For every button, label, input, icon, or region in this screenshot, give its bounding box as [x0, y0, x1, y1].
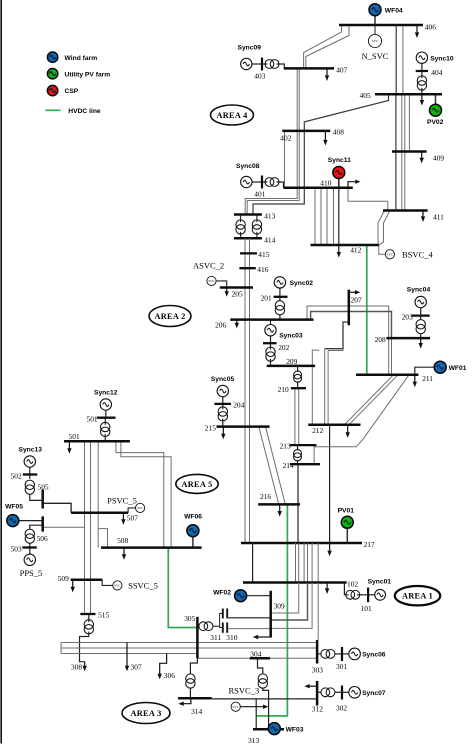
- svg-text:305: 305: [184, 614, 195, 623]
- bus 203: [411, 314, 429, 316]
- wire Sync08 gen lead: [252, 181, 262, 183]
- wire bus501 drop b: [90, 441, 92, 614]
- svg-text:405: 405: [360, 91, 371, 100]
- wire 413 transformer leads a: [240, 215, 242, 223]
- transformer Sync06: [321, 650, 335, 659]
- transformer Sync12: [101, 422, 110, 436]
- load arrow bus 205: [225, 288, 229, 297]
- wire left end connector: [60, 643, 62, 654]
- bus 217: [241, 542, 362, 545]
- svg-text:401: 401: [254, 190, 265, 199]
- svg-text:307: 307: [131, 662, 142, 671]
- transformer 413-414 right: [252, 220, 261, 234]
- wire line 211-214 diagonal: [314, 375, 409, 464]
- svg-text:PPS_5: PPS_5: [20, 568, 43, 578]
- svg-text:308: 308: [71, 663, 82, 672]
- wire line 206-208 upper: [307, 306, 389, 338]
- svg-text:PSVC_5: PSVC_5: [107, 495, 137, 505]
- bus 506: [41, 516, 44, 531]
- wire riser to bus 313: [255, 699, 257, 729]
- load arrow bus 217: [327, 543, 331, 556]
- wire 501g to transformer: [104, 418, 106, 425]
- svg-text:PV01: PV01: [338, 507, 355, 514]
- wire line 310-309 lower: [227, 628, 270, 630]
- svg-text:WF03: WF03: [286, 727, 304, 734]
- svg-text:407: 407: [336, 65, 347, 74]
- SVC PSVC_5: [136, 503, 145, 512]
- svg-text:306: 306: [164, 671, 175, 680]
- bus 212: [308, 423, 360, 426]
- svg-text:Sync06: Sync06: [362, 652, 386, 659]
- svg-text:AREA 1: AREA 1: [402, 592, 433, 601]
- transformer Sync13: [25, 480, 34, 494]
- wire line 217-102 f: [311, 543, 313, 583]
- bus 301: [341, 647, 343, 661]
- transformer 413-414 left: [236, 220, 245, 234]
- load arrow bus 216: [278, 504, 282, 516]
- wire BSVC_4 lead: [379, 245, 385, 254]
- wire Sync02 transformer to bus 206: [279, 315, 281, 320]
- generator Sync07: [349, 687, 361, 699]
- wire line 217-102 b: [295, 543, 297, 583]
- generator Sync09: [241, 58, 252, 69]
- svg-text:216: 216: [260, 492, 271, 501]
- bus 207: [348, 290, 351, 326]
- wire Sync09 gen lead: [252, 63, 262, 65]
- bus 415: [240, 252, 257, 254]
- svg-text:208: 208: [375, 335, 386, 344]
- bus 214: [290, 463, 320, 465]
- wire line 406-407 circuit b: [306, 25, 349, 68]
- wire bus508 elbow: [98, 529, 107, 548]
- bus 311 converter bar upper: [222, 609, 224, 619]
- generator Sync05: [217, 385, 228, 396]
- wire bus209 to transformer 210: [297, 366, 299, 372]
- area 2 ellipse: [149, 306, 191, 327]
- svg-text:502: 502: [11, 471, 22, 480]
- transformer Sync01: [346, 590, 360, 599]
- load arrow bus 407: [325, 68, 329, 81]
- wire Sync04 gen lead: [420, 308, 422, 316]
- transformer Sync08: [265, 178, 279, 187]
- svg-text:311: 311: [210, 633, 221, 642]
- wire transformer 304 to bus 313 riser: [263, 688, 269, 729]
- wire Sync12 transformer to bus 501: [104, 434, 106, 441]
- transformer Sync04: [416, 320, 425, 334]
- generator Sync06: [349, 648, 361, 660]
- svg-text:WF02: WF02: [213, 589, 231, 596]
- bus 312: [316, 681, 319, 706]
- load arrow bus 402 408: [323, 131, 327, 146]
- load arrow bus 206: [235, 320, 239, 329]
- wire line 414-217 a: [244, 238, 246, 543]
- load arrow bus 208: [419, 338, 423, 349]
- bus 216: [258, 503, 300, 506]
- load arrow bus 211: [413, 375, 417, 387]
- generator Sync10: [416, 52, 427, 63]
- HVDC line 216-313: [256, 504, 287, 716]
- svg-text:SVC: SVC: [232, 705, 239, 709]
- wire bus515 to transformer: [88, 614, 90, 622]
- svg-text:AREA 2: AREA 2: [154, 312, 185, 321]
- load arrow bus 507: [121, 513, 125, 525]
- figure left border: [0, 0, 2, 744]
- SVC BSVC_4: [385, 250, 394, 259]
- wire PPS transformer to bus 503: [29, 543, 31, 548]
- bus 515: [80, 613, 95, 615]
- transformer Sync05: [218, 407, 227, 421]
- transformer Sync03: [266, 347, 275, 361]
- bus 310 converter bar upper: [226, 609, 228, 619]
- wire Sync05 transformer to bus 215: [222, 419, 224, 427]
- wire line 410-412 a: [314, 188, 316, 245]
- svg-text:411: 411: [433, 212, 444, 221]
- svg-text:312: 312: [312, 704, 323, 713]
- bus 507: [71, 512, 128, 515]
- transformer 209-210: [294, 371, 302, 382]
- load arrow bus 102: [325, 583, 329, 595]
- wire Sync07 lead a: [317, 691, 321, 693]
- svg-text:CSP: CSP: [65, 88, 79, 95]
- svg-text:101: 101: [361, 604, 372, 613]
- wire 515 transformer elbow to load 308: [80, 632, 89, 662]
- svg-text:PV02: PV02: [427, 119, 444, 126]
- svg-text:HVDC line: HVDC line: [68, 108, 101, 115]
- bus 509: [71, 579, 103, 582]
- wire bus505 to bus507 elbow: [43, 503, 71, 513]
- load arrow bus 215: [221, 427, 225, 440]
- bus 101: [367, 588, 369, 603]
- wire line 217-102 d: [303, 543, 305, 583]
- bus 501: [64, 440, 130, 443]
- legend HVDC line sample: [46, 109, 61, 111]
- wire bus101 to Sync01 gen: [368, 594, 375, 596]
- bus 210: [291, 387, 306, 389]
- wire line 410-412 b: [320, 188, 322, 245]
- svg-text:WF04: WF04: [385, 7, 403, 14]
- load arrow bus 309 pointing left: [253, 635, 271, 639]
- bus 311 converter bar lower: [222, 623, 224, 633]
- wire N_SVC stem: [374, 25, 376, 34]
- wire line 214-216: [297, 464, 299, 504]
- wire line 206-208 lower dark: [311, 312, 392, 339]
- wind farm WF06: [187, 525, 199, 537]
- wire line 217-102 c: [298, 543, 300, 583]
- wire line 305-304-303: [197, 657, 317, 659]
- wire Sync13 gen lead: [29, 467, 31, 474]
- area 4 ellipse: [211, 105, 254, 125]
- svg-text:ASVC_2: ASVC_2: [193, 260, 224, 270]
- wire line 102-309 middle: [271, 583, 308, 621]
- svg-text:509: 509: [58, 574, 69, 583]
- wire Sync12 gen lead: [105, 410, 107, 417]
- svg-text:212: 212: [312, 426, 323, 435]
- svg-text:207: 207: [351, 296, 362, 305]
- svg-text:416: 416: [257, 265, 268, 274]
- generator Sync08: [241, 176, 252, 187]
- svg-text:506: 506: [37, 534, 48, 543]
- svg-text:304: 304: [250, 650, 261, 659]
- svg-text:501: 501: [69, 432, 80, 441]
- wire WF05 lead: [18, 520, 42, 522]
- wire line 210-213 b: [298, 388, 300, 445]
- wire transformer to bus 210: [297, 381, 299, 388]
- svg-text:Utility PV farm: Utility PV farm: [65, 71, 111, 78]
- svg-text:Sync11: Sync11: [328, 157, 351, 164]
- svg-text:SVC: SVC: [372, 39, 379, 43]
- svg-text:313: 313: [248, 736, 259, 745]
- generator Sync03: [265, 325, 276, 336]
- svg-text:Sync02: Sync02: [290, 280, 314, 287]
- svg-text:408: 408: [333, 128, 344, 137]
- wire Sync06 lead a: [317, 653, 321, 655]
- wire line 405-409 a: [395, 94, 397, 151]
- svg-text:Sync07: Sync07: [362, 690, 386, 697]
- svg-text:414: 414: [264, 235, 275, 244]
- wind farm WF04: [369, 4, 381, 16]
- wire 201 to transformer: [279, 297, 281, 301]
- wind farm WF02: [235, 590, 247, 602]
- load arrow bus 501: [67, 441, 71, 454]
- generator Sync12: [100, 399, 111, 410]
- transformer Sync07: [321, 688, 335, 697]
- svg-text:215: 215: [205, 423, 216, 432]
- wire line 215-216 diagonal a: [259, 427, 279, 505]
- wire PV02 stem: [435, 94, 437, 104]
- wire Sync02 gen lead: [279, 288, 281, 297]
- wire Sync04 transformer to bus 208: [420, 334, 422, 338]
- generator Sync01: [375, 589, 386, 600]
- bus 407: [284, 67, 334, 70]
- svg-text:309: 309: [274, 601, 285, 610]
- bus 309: [269, 591, 272, 638]
- wire ASVC_2 to bus 205: [216, 281, 227, 288]
- wire line 405-409 d: [408, 94, 410, 151]
- svg-text:SVC: SVC: [208, 279, 215, 283]
- bus 503: [22, 546, 37, 548]
- svg-text:314: 314: [191, 707, 202, 716]
- wire 204 to transformer: [222, 404, 224, 409]
- generator Sync13: [24, 456, 35, 467]
- wire line 410-411: [348, 188, 388, 211]
- wire line 310-309 upper: [227, 617, 270, 619]
- svg-text:406: 406: [425, 22, 436, 31]
- load arrow bus 405: [420, 94, 424, 105]
- bus 403: [261, 58, 263, 71]
- wire Sync08 transformer to bus410: [277, 182, 284, 188]
- bus 411: [383, 209, 428, 212]
- svg-text:Sync04: Sync04: [407, 286, 431, 293]
- svg-text:505: 505: [38, 482, 49, 491]
- bus 211: [356, 374, 418, 377]
- wire PV01 stem: [346, 529, 348, 543]
- svg-text:503: 503: [11, 544, 22, 553]
- wire bus102 to Sync01 transformer: [344, 583, 348, 595]
- svg-text:403: 403: [254, 72, 265, 81]
- wire bus501 drop a: [84, 441, 86, 614]
- svg-text:Sync01: Sync01: [368, 578, 392, 585]
- wire line 314-312: [212, 698, 317, 700]
- wire line 409-411 a: [395, 152, 397, 211]
- svg-text:412: 412: [350, 246, 361, 255]
- bus 508: [101, 546, 202, 549]
- svg-text:508: 508: [117, 536, 128, 545]
- bus 505: [41, 490, 44, 509]
- svg-text:515: 515: [98, 611, 109, 620]
- SVC N_SVC: [368, 34, 381, 47]
- wire 311 bracket: [220, 614, 223, 628]
- wire line 405-409 b: [401, 94, 403, 151]
- wire Sync13 transformer to bus 505: [30, 494, 43, 500]
- area 1 ellipse: [395, 586, 440, 605]
- transformer 305-314: [186, 674, 195, 688]
- transformer 213-214: [294, 450, 302, 461]
- SVC RSVC_3 arrow to bus 312 line: [240, 705, 268, 709]
- svg-text:BSVC_4: BSVC_4: [402, 250, 433, 260]
- wire 403 to transformer: [262, 63, 267, 65]
- bus 202: [263, 342, 277, 344]
- wire line 409-411 c: [404, 152, 406, 211]
- generator Sync02: [274, 277, 285, 288]
- wire Sync05 gen lead: [222, 397, 224, 404]
- wire line 410-412 e: [338, 188, 340, 245]
- svg-text:214: 214: [283, 461, 294, 470]
- svg-text:WF01: WF01: [449, 365, 467, 372]
- wire Sync10 gen lead: [421, 64, 423, 72]
- svg-text:Sync13: Sync13: [19, 447, 43, 454]
- bus 213: [290, 444, 317, 446]
- wire line 407-413 a: [245, 68, 297, 214]
- wire WF01 lead: [415, 367, 435, 375]
- svg-text:402: 402: [280, 134, 291, 143]
- wire line 102-303: [317, 583, 319, 641]
- wire line 405-402 diagonal to bus 413: [253, 94, 389, 214]
- wire line 217-102 e: [307, 543, 309, 583]
- svg-text:SSVC_5: SSVC_5: [128, 580, 158, 590]
- legend utility PV icon: [47, 69, 57, 79]
- bus 201: [274, 296, 288, 298]
- SVC RSVC_3: [231, 702, 240, 711]
- wire Sync11 stem: [338, 179, 340, 188]
- svg-text:303: 303: [312, 666, 323, 675]
- svg-text:SVC: SVC: [114, 584, 121, 588]
- bus 412: [311, 244, 379, 247]
- bus 502: [23, 473, 38, 475]
- wire line 216-217: [297, 504, 299, 543]
- load arrow bus 312 pointing left: [304, 684, 316, 688]
- wire bus506 to PPS transformer: [30, 525, 43, 529]
- HVDC line 508-305: [168, 548, 197, 628]
- wire line 210-213 a: [294, 388, 296, 445]
- wire 202 to transformer: [270, 343, 272, 349]
- svg-text:507: 507: [127, 513, 138, 522]
- transformer 305-311: [199, 622, 213, 631]
- wire line 102-309 lower: [271, 583, 312, 629]
- wire line 211-212 diagonal b: [345, 375, 394, 425]
- wire lines 305-303 middle: [61, 647, 317, 649]
- svg-text:501: 501: [87, 414, 98, 423]
- wire WF04 stem: [374, 16, 376, 25]
- svg-text:217: 217: [364, 540, 375, 549]
- bus 401: [261, 176, 263, 189]
- load arrow 307: [125, 643, 129, 672]
- wire line 207-212 staircase: [325, 322, 349, 349]
- transformer Sync10: [417, 76, 426, 90]
- svg-text:SVC: SVC: [137, 506, 144, 510]
- wire line 208-211 a: [391, 338, 393, 375]
- bus 314: [178, 697, 212, 700]
- svg-text:404: 404: [431, 68, 442, 77]
- svg-text:WF06: WF06: [184, 513, 202, 520]
- wire transformer to bus 101: [357, 594, 368, 596]
- wire lines 305-303 upper: [61, 642, 317, 644]
- svg-text:AREA 3: AREA 3: [130, 709, 161, 718]
- svg-text:RSVC_3: RSVC_3: [229, 686, 260, 696]
- bus 206: [230, 318, 313, 321]
- wire 413 transformer leads c: [256, 215, 258, 223]
- svg-text:409: 409: [433, 153, 444, 162]
- wire line staircase-212 riser a: [324, 349, 326, 425]
- load arrow bus 508: [122, 548, 126, 560]
- svg-text:211: 211: [422, 374, 433, 383]
- bus 305: [196, 617, 199, 658]
- svg-text:Sync09: Sync09: [238, 45, 262, 52]
- wire Sync06 lead c: [342, 653, 349, 655]
- legend CSP icon: [47, 85, 57, 95]
- wire bus501 drop c: [97, 441, 99, 547]
- wire Sync07 lead b: [335, 691, 343, 693]
- load arrow bus 509: [71, 580, 75, 593]
- wire PSVC_5 lead: [128, 508, 136, 513]
- wire bus304 hook to transformer: [258, 658, 263, 674]
- wire Sync07 lead c: [342, 691, 349, 693]
- bus 215: [217, 425, 270, 428]
- wire line 406-405 a: [395, 25, 397, 94]
- wire line 410-412 d: [333, 188, 335, 245]
- svg-text:AREA 5: AREA 5: [181, 480, 212, 489]
- svg-text:410: 410: [320, 178, 331, 187]
- bus 208: [386, 337, 430, 340]
- bus 205: [220, 286, 253, 289]
- generator Sync04: [415, 296, 426, 307]
- wire line 501-508 a: [116, 441, 164, 547]
- wire line 212 riser c: [327, 351, 329, 425]
- bus 303: [316, 640, 319, 664]
- SVC SSVC_5: [113, 581, 122, 590]
- bus 204: [214, 403, 231, 405]
- wire 401 to transformer: [262, 181, 267, 183]
- wire line 411-412 staircase b: [379, 211, 390, 246]
- wire 413 transformer leads d: [256, 232, 258, 239]
- bus 310 converter bar lower: [226, 623, 228, 633]
- svg-text:Sync03: Sync03: [279, 333, 303, 340]
- wire line 501-508 b: [121, 441, 171, 547]
- svg-text:WF05: WF05: [5, 503, 23, 510]
- bus 413: [234, 213, 262, 216]
- transformer 304-313: [258, 674, 267, 688]
- bus 410: [284, 187, 353, 190]
- wire line 102-309 upper: [271, 583, 299, 614]
- wire line 212 riser with stub: [312, 350, 319, 425]
- svg-text:N_SVC: N_SVC: [362, 51, 389, 61]
- svg-text:201: 201: [261, 294, 272, 303]
- wire Sync03 gen lead: [270, 336, 272, 344]
- wire lines to 305 lower: [61, 653, 197, 655]
- svg-text:415: 415: [258, 250, 269, 259]
- transformer WF05-PPS: [25, 529, 34, 543]
- bus 209: [267, 365, 315, 368]
- wire bus305 to transformer 305: [190, 658, 197, 674]
